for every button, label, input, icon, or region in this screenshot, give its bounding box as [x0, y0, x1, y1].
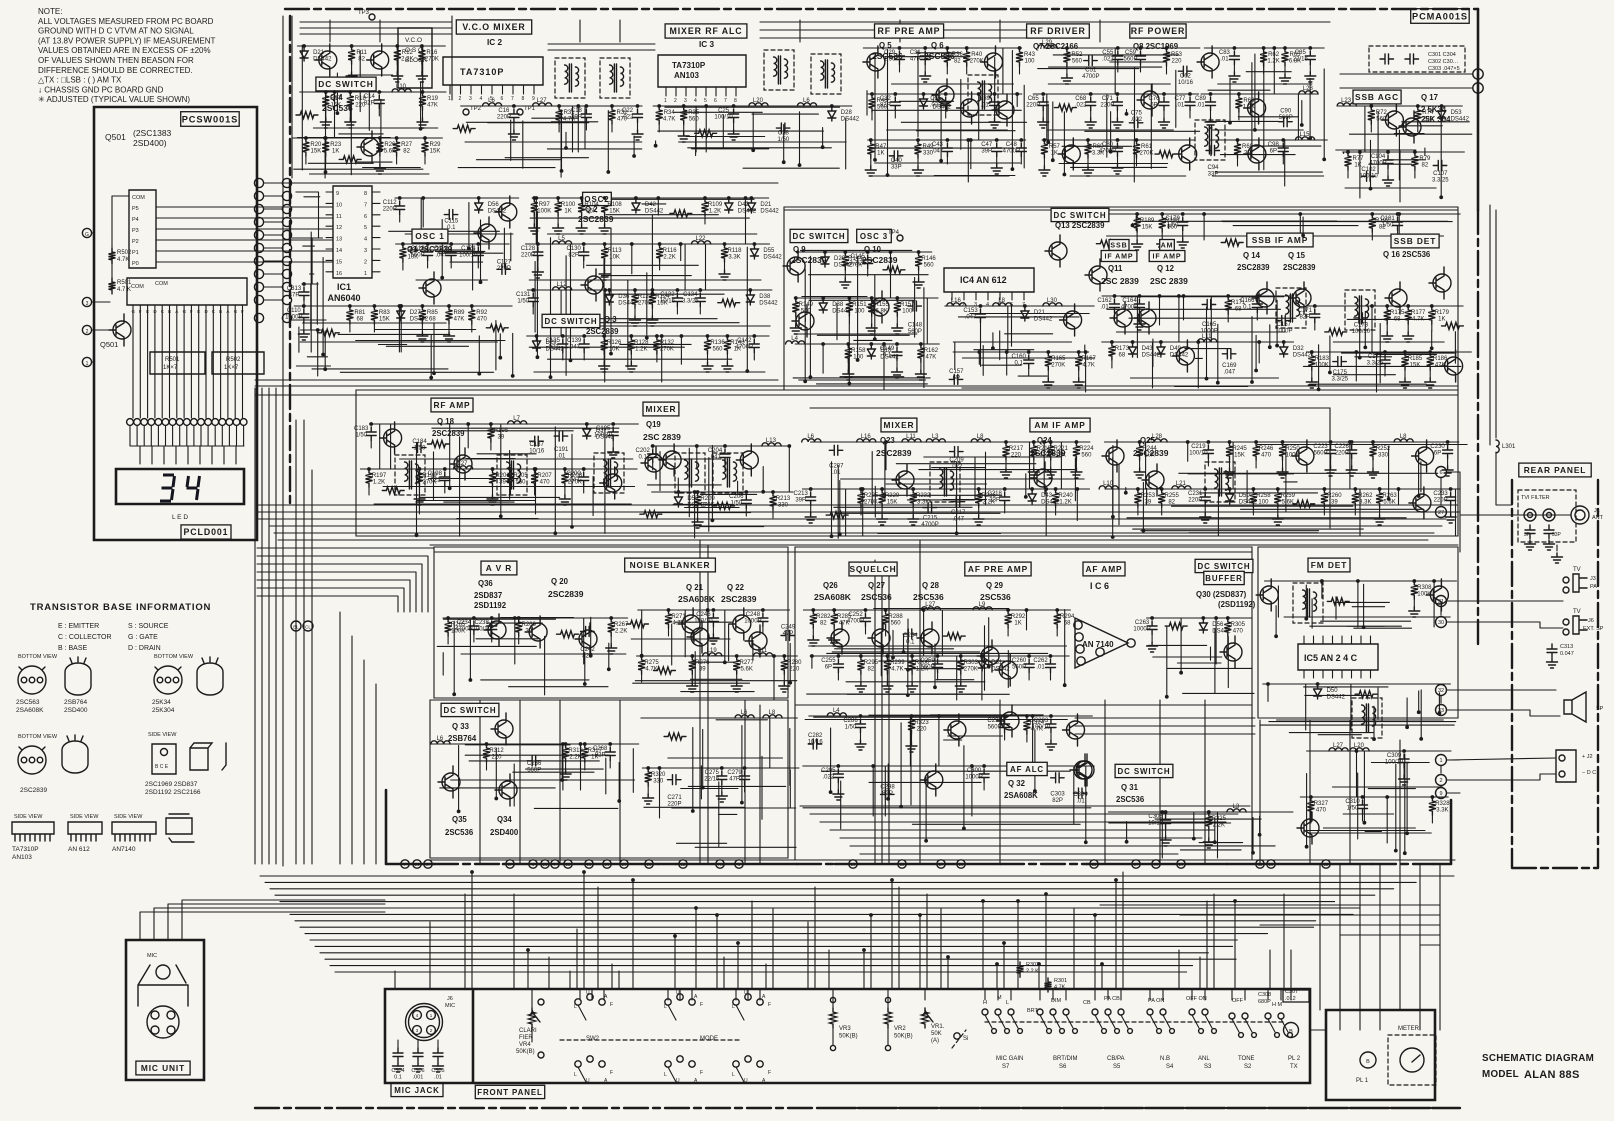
svg-text:D21: D21: [1034, 310, 1046, 316]
svg-text:47P: 47P: [289, 293, 300, 299]
svg-text:C71: C71: [1102, 96, 1114, 102]
svg-text:R113: R113: [608, 248, 623, 254]
svg-text:B: B: [1289, 1029, 1293, 1035]
svg-text:C308: C308: [1258, 992, 1271, 998]
svg-text:220P: 220P: [383, 207, 397, 213]
svg-text:R295: R295: [864, 660, 879, 666]
svg-text:C304: C304: [391, 1068, 404, 1074]
svg-text:D43: D43: [1041, 493, 1053, 499]
svg-text:C18: C18: [571, 108, 583, 114]
svg-text:Q24: Q24: [1037, 436, 1052, 445]
svg-text:Q 14: Q 14: [1243, 251, 1261, 260]
svg-text:SSB IF AMP: SSB IF AMP: [1252, 235, 1308, 245]
svg-text:D53: D53: [1451, 110, 1463, 116]
svg-text:6P: 6P: [1434, 451, 1441, 457]
svg-text:L13: L13: [766, 438, 777, 444]
svg-text:S6: S6: [1059, 1064, 1067, 1070]
svg-text:M: M: [1154, 862, 1158, 867]
svg-text:R207: R207: [537, 473, 552, 479]
svg-text:39: 39: [1145, 500, 1152, 506]
svg-text:33P: 33P: [891, 165, 902, 171]
svg-text:C77: C77: [1174, 96, 1186, 102]
svg-text:R262: R262: [1358, 493, 1373, 499]
svg-text:2SC536: 2SC536: [924, 51, 955, 61]
svg-text:C301 C304: C301 C304: [1428, 52, 1456, 58]
svg-text:ALL VOLTAGES MEASURED FROM PC: ALL VOLTAGES MEASURED FROM PC BOARD: [38, 17, 214, 26]
svg-text:L10: L10: [396, 84, 407, 90]
svg-text:VR1.: VR1.: [931, 1024, 945, 1030]
svg-text:U: U: [676, 1078, 680, 1084]
svg-text:R240: R240: [1058, 493, 1073, 499]
svg-text:2.2K: 2.2K: [401, 57, 413, 63]
svg-text:AF AMP: AF AMP: [1085, 564, 1122, 574]
svg-text:MIXER: MIXER: [646, 404, 677, 414]
svg-text:4.7K: 4.7K: [1412, 317, 1424, 323]
svg-text:C300: C300: [967, 768, 982, 774]
svg-text:220P: 220P: [1100, 103, 1114, 109]
svg-text:DS442: DS442: [763, 255, 782, 261]
svg-text:TP4: TP4: [888, 230, 900, 236]
svg-text:7: 7: [511, 96, 514, 102]
svg-text:D31: D31: [991, 660, 1003, 666]
svg-text:C162: C162: [1097, 298, 1112, 304]
svg-text:MODEL: MODEL: [1482, 1069, 1519, 1080]
svg-text:1.2K: 1.2K: [1059, 500, 1071, 506]
svg-text:4700P: 4700P: [1369, 161, 1386, 167]
svg-text:220P: 220P: [667, 802, 681, 808]
svg-text:270K: 270K: [701, 503, 715, 509]
svg-text:330: 330: [1378, 453, 1389, 459]
svg-text:R26: R26: [384, 142, 396, 148]
svg-text:C39: C39: [979, 96, 991, 102]
svg-text:Q501: Q501: [105, 132, 126, 142]
svg-text:R258: R258: [1256, 493, 1271, 499]
svg-text:R277: R277: [740, 660, 755, 666]
svg-text:AN103: AN103: [674, 71, 699, 80]
svg-text:R165: R165: [1051, 356, 1066, 362]
svg-text:2: 2: [364, 259, 367, 265]
svg-text:E: E: [146, 309, 149, 314]
svg-text:C304: C304: [1073, 792, 1088, 798]
svg-text:10K: 10K: [609, 347, 620, 353]
svg-text:R151: R151: [852, 302, 867, 308]
svg-text:R292: R292: [1011, 614, 1026, 620]
svg-text:Q 6: Q 6: [931, 41, 944, 50]
svg-text:C286: C286: [843, 718, 858, 724]
svg-text:C195: C195: [596, 426, 611, 432]
svg-text:L11: L11: [1202, 334, 1212, 340]
svg-text:(2SC1383: (2SC1383: [133, 128, 172, 138]
svg-text:6P: 6P: [953, 376, 960, 382]
svg-text:11: 11: [1258, 862, 1263, 867]
svg-text:C94: C94: [1207, 165, 1219, 171]
svg-text:C16: C16: [498, 108, 510, 114]
svg-text:BRT/DIM: BRT/DIM: [1053, 1056, 1078, 1062]
svg-text:DIFFERENCE SHOULD BE CORRECTED: DIFFERENCE SHOULD BE CORRECTED.: [38, 66, 193, 75]
svg-text:1: 1: [364, 271, 367, 277]
svg-text:68: 68: [1064, 621, 1071, 627]
svg-text:DS442: DS442: [1327, 695, 1346, 701]
svg-text:C165: C165: [1202, 322, 1217, 328]
svg-text:.01: .01: [1196, 103, 1205, 109]
svg-text:TX: TX: [717, 862, 723, 867]
svg-text:47P: 47P: [783, 631, 794, 637]
svg-text:220: 220: [916, 727, 927, 733]
svg-text:D21: D21: [760, 202, 772, 208]
svg-text:OFF: OFF: [1232, 998, 1244, 1004]
svg-text:4.7K: 4.7K: [891, 667, 903, 673]
svg-text:15K: 15K: [311, 149, 322, 155]
svg-text:R35: R35: [688, 110, 700, 116]
svg-text:H: H: [983, 1000, 987, 1006]
svg-text:R173: R173: [1115, 346, 1130, 352]
svg-text:L27: L27: [537, 98, 548, 104]
svg-text:100/10: 100/10: [1359, 173, 1378, 179]
svg-text:1/50: 1/50: [845, 725, 857, 731]
svg-text:NOTE:: NOTE:: [38, 7, 62, 16]
svg-text:1.2K: 1.2K: [1267, 59, 1279, 65]
svg-text:100/10: 100/10: [714, 115, 733, 121]
svg-text:6: 6: [1010, 302, 1013, 308]
svg-text:F: F: [610, 1002, 613, 1008]
svg-text:10/16: 10/16: [808, 740, 824, 746]
svg-text:5.6K: 5.6K: [384, 149, 396, 155]
svg-text:(A): (A): [931, 1038, 939, 1044]
svg-text:C145: C145: [851, 254, 866, 260]
svg-text:DS442: DS442: [832, 309, 851, 315]
svg-text:220P: 220P: [1188, 498, 1202, 504]
svg-text:1/50: 1/50: [730, 501, 742, 507]
svg-text:ALAN 88S: ALAN 88S: [1524, 1069, 1580, 1081]
svg-text:△TX : □LSB : ( ) AM TX: △TX : □LSB : ( ) AM TX: [38, 76, 122, 85]
svg-text:1000P: 1000P: [1275, 329, 1292, 335]
svg-text:68: 68: [429, 317, 436, 323]
svg-text:1K×7: 1K×7: [224, 365, 239, 371]
svg-text:IC 2: IC 2: [487, 38, 502, 47]
svg-text:R72: R72: [1376, 110, 1388, 116]
svg-text:R299: R299: [890, 660, 905, 666]
svg-text:4: 4: [480, 96, 483, 102]
svg-text:2: 2: [1439, 778, 1442, 784]
svg-text:100/10: 100/10: [1352, 329, 1371, 335]
svg-text:82: 82: [954, 59, 961, 65]
svg-text:2SC536: 2SC536: [861, 592, 892, 602]
svg-text:VR3: VR3: [839, 1026, 851, 1032]
svg-text:AN103: AN103: [12, 854, 32, 861]
svg-text:L15: L15: [1299, 132, 1310, 138]
svg-text:IF AMP: IF AMP: [1105, 254, 1134, 261]
svg-text:Q11: Q11: [1108, 264, 1123, 273]
svg-text:100/10: 100/10: [1189, 451, 1208, 457]
svg-text:B: B: [168, 309, 171, 314]
svg-text:L10: L10: [1103, 481, 1114, 487]
svg-text:C110: C110: [287, 308, 302, 314]
svg-text:Q8 2SC1969: Q8 2SC1969: [1133, 42, 1179, 51]
svg-text:33P: 33P: [989, 498, 1000, 504]
svg-text:G: G: [132, 309, 136, 314]
svg-text:2SC 2839: 2SC 2839: [643, 432, 681, 442]
svg-text:1/50: 1/50: [1167, 223, 1179, 229]
svg-text:100: 100: [1258, 500, 1269, 506]
svg-text:15K: 15K: [430, 149, 441, 155]
svg-text:R109: R109: [708, 202, 723, 208]
svg-text:C51: C51: [1085, 68, 1097, 74]
svg-text:R280: R280: [787, 660, 802, 666]
svg-text:.047: .047: [952, 517, 964, 523]
svg-text:BUFFER: BUFFER: [1205, 574, 1242, 583]
svg-text:68: 68: [1394, 317, 1401, 323]
svg-text:Q 16 2SC536: Q 16 2SC536: [1383, 250, 1431, 259]
svg-text:CB: CB: [1083, 1000, 1091, 1006]
svg-text:R92: R92: [476, 310, 488, 316]
svg-text:R189: R189: [1140, 218, 1155, 224]
svg-text:220P: 220P: [1335, 451, 1349, 457]
svg-text:EXT. SP: EXT. SP: [1583, 626, 1604, 632]
svg-text:L: L: [574, 1072, 577, 1078]
svg-text:R186: R186: [1433, 356, 1448, 362]
svg-text:15K: 15K: [586, 209, 597, 215]
svg-text:C65: C65: [1028, 96, 1040, 102]
svg-text:470: 470: [1316, 808, 1327, 814]
svg-text:C83: C83: [1219, 50, 1231, 56]
svg-text:R62: R62: [1268, 52, 1280, 58]
svg-text:560P: 560P: [1123, 57, 1137, 63]
svg-text:560P: 560P: [527, 768, 541, 774]
svg-text:82: 82: [1168, 500, 1175, 506]
svg-text:23: 23: [647, 862, 652, 867]
svg-text:R325: R325: [1212, 816, 1227, 822]
svg-text:15K: 15K: [609, 209, 620, 215]
svg-text:.01: .01: [832, 470, 841, 476]
svg-text:2SC2839: 2SC2839: [578, 214, 614, 224]
svg-text:D42: D42: [738, 202, 750, 208]
svg-text:C134: C134: [683, 292, 698, 298]
svg-text:L16: L16: [861, 434, 872, 440]
svg-text:D : DRAIN: D : DRAIN: [128, 645, 161, 652]
svg-text:0.1: 0.1: [447, 225, 456, 231]
svg-text:220: 220: [1011, 453, 1022, 459]
svg-text:IC5 AN 2 4 C: IC5 AN 2 4 C: [1304, 653, 1358, 663]
svg-text:2SA608K: 2SA608K: [814, 592, 852, 602]
svg-text:.01: .01: [1036, 665, 1045, 671]
svg-text:100/10: 100/10: [459, 253, 478, 259]
svg-text:C75: C75: [1131, 111, 1143, 117]
svg-text:R501: R501: [165, 357, 180, 363]
svg-text:R313: R313: [568, 748, 583, 754]
svg-text:47K: 47K: [427, 103, 438, 109]
svg-text:C184: C184: [412, 439, 427, 445]
svg-text:C293: C293: [1034, 718, 1049, 724]
svg-text:DC SWITCH: DC SWITCH: [545, 317, 598, 326]
svg-text:COM: COM: [131, 284, 144, 290]
svg-text:R100: R100: [561, 202, 576, 208]
svg-text:AN7140: AN7140: [112, 846, 136, 853]
svg-text:.047: .047: [568, 478, 580, 484]
svg-text:C262: C262: [1033, 658, 1048, 664]
svg-text:R158: R158: [851, 348, 866, 354]
svg-text:R294: R294: [1060, 614, 1075, 620]
svg-text:C148: C148: [908, 322, 923, 328]
svg-text:P4: P4: [132, 217, 139, 223]
svg-text:AM: AM: [1161, 243, 1174, 250]
svg-text:R312: R312: [489, 748, 504, 754]
svg-text:DC SWITCH: DC SWITCH: [1198, 562, 1251, 571]
svg-text:Q 12: Q 12: [1157, 264, 1175, 273]
svg-text:TV: TV: [1573, 609, 1581, 615]
svg-text:2SB764: 2SB764: [448, 734, 477, 743]
svg-text:R323: R323: [914, 720, 929, 726]
svg-text:C124: C124: [461, 246, 476, 252]
svg-text:C279: C279: [727, 770, 742, 776]
svg-text:15K: 15K: [1142, 225, 1153, 231]
svg-text:1/50: 1/50: [1347, 806, 1359, 812]
svg-text:15K: 15K: [887, 500, 898, 506]
svg-text:C32: C32: [880, 96, 892, 102]
svg-text:560: 560: [924, 263, 935, 269]
svg-text:L7: L7: [513, 416, 520, 422]
svg-text:R155: R155: [875, 302, 890, 308]
svg-text:C255: C255: [821, 658, 836, 664]
svg-text:100/10: 100/10: [594, 433, 613, 439]
svg-text:2.2K: 2.2K: [1213, 823, 1225, 829]
svg-text:P3: P3: [132, 228, 139, 234]
svg-text:82P: 82P: [882, 791, 893, 797]
svg-text:39P: 39P: [981, 149, 992, 155]
svg-text:U: U: [744, 990, 748, 996]
svg-text:D53: D53: [687, 496, 699, 502]
svg-text:DS442: DS442: [1170, 353, 1189, 359]
svg-text:C171: C171: [1298, 308, 1313, 314]
svg-text:1.2K: 1.2K: [373, 480, 385, 486]
svg-text:B: B: [219, 309, 222, 314]
svg-text:8: 8: [364, 191, 367, 197]
svg-text:C131: C131: [516, 292, 531, 298]
svg-text:2SC536: 2SC536: [980, 592, 1011, 602]
svg-text:C107: C107: [1433, 171, 1448, 177]
svg-text:25K34: 25K34: [152, 699, 171, 706]
svg-text:C234: C234: [457, 620, 472, 626]
svg-text:4: 4: [694, 98, 697, 104]
svg-text:AF PRE AMP: AF PRE AMP: [968, 564, 1028, 574]
svg-text:C90: C90: [1280, 109, 1292, 115]
svg-text:10/16: 10/16: [1148, 821, 1164, 827]
svg-text:.047: .047: [435, 253, 447, 259]
svg-text:R288: R288: [888, 614, 903, 620]
svg-text:4700P: 4700P: [1099, 149, 1116, 155]
svg-text:VR2: VR2: [894, 1026, 906, 1032]
svg-text:D50: D50: [1239, 493, 1251, 499]
svg-text:R167: R167: [1082, 356, 1097, 362]
svg-text:C89: C89: [1195, 96, 1207, 102]
svg-text:82: 82: [358, 57, 365, 63]
svg-text:L6: L6: [437, 736, 444, 742]
svg-text:L23: L23: [1341, 98, 1352, 104]
svg-text:FM DET: FM DET: [1311, 560, 1347, 570]
svg-text:VALUES OBTAINED ARE IN EXCESS: VALUES OBTAINED ARE IN EXCESS OF ±20%: [38, 46, 211, 55]
svg-text:R77: R77: [1352, 156, 1364, 162]
svg-text:L22: L22: [695, 236, 706, 242]
svg-text:1: 1: [448, 96, 451, 102]
svg-text:R74: R74: [1422, 110, 1434, 116]
svg-text:R260: R260: [1327, 493, 1342, 499]
svg-text:Q 31: Q 31: [1121, 783, 1139, 792]
svg-text:47P: 47P: [729, 777, 740, 783]
svg-text:3.3/25: 3.3/25: [1432, 177, 1449, 183]
svg-text:6P: 6P: [825, 665, 832, 671]
svg-text:PA: PA: [1590, 584, 1597, 590]
svg-text:.047: .047: [965, 315, 977, 321]
svg-text:2SA608K: 2SA608K: [1004, 791, 1038, 800]
svg-text:C309: C309: [1387, 753, 1402, 759]
svg-text:270K: 270K: [1139, 151, 1153, 157]
svg-text:100K: 100K: [1315, 363, 1329, 369]
svg-text:Q 15: Q 15: [1288, 251, 1306, 260]
svg-text:.001: .001: [413, 1075, 424, 1081]
svg-text:R308: R308: [1417, 585, 1432, 591]
svg-text:C215: C215: [923, 516, 938, 522]
svg-text:39: 39: [699, 667, 706, 673]
svg-text:C219: C219: [1191, 444, 1206, 450]
svg-text:DC SWITCH: DC SWITCH: [793, 232, 846, 241]
svg-text:1.2K: 1.2K: [709, 209, 721, 215]
svg-text:R16: R16: [426, 50, 438, 56]
svg-text:18: 18: [900, 862, 905, 867]
svg-text:C98: C98: [1268, 142, 1280, 148]
svg-text:S4: S4: [1166, 1064, 1174, 1070]
svg-text:DS442: DS442: [645, 209, 664, 215]
svg-text:C306: C306: [411, 1068, 424, 1074]
svg-text:SIDE VIEW: SIDE VIEW: [70, 814, 99, 820]
svg-text:1K: 1K: [332, 149, 339, 155]
svg-text:R27: R27: [401, 142, 413, 148]
svg-text:U: U: [744, 1078, 748, 1084]
svg-text:4700P: 4700P: [455, 627, 472, 633]
svg-text:BOTTOM VIEW: BOTTOM VIEW: [18, 654, 58, 660]
svg-text:L6: L6: [803, 98, 810, 104]
svg-text:3: 3: [469, 96, 472, 102]
svg-text:R282: R282: [816, 614, 831, 620]
svg-text:R104: R104: [584, 202, 599, 208]
svg-text:C310: C310: [1345, 799, 1360, 805]
svg-text:C177: C177: [1368, 354, 1383, 360]
svg-text:C62: C62: [1180, 74, 1192, 80]
svg-text:TRANSISTOR BASE INFORMATION: TRANSISTOR BASE INFORMATION: [30, 602, 211, 613]
svg-text:IF AMP: IF AMP: [1153, 254, 1182, 261]
svg-text:CB/PA: CB/PA: [1107, 1056, 1125, 1062]
svg-text:R267: R267: [614, 622, 629, 628]
svg-text:100: 100: [854, 309, 865, 315]
svg-text:39P: 39P: [571, 115, 582, 121]
svg-text:L: L: [574, 1004, 577, 1010]
svg-text:47K: 47K: [926, 355, 937, 361]
svg-text:82P: 82P: [582, 654, 593, 660]
svg-text:.01: .01: [1100, 305, 1109, 311]
svg-text:R213: R213: [776, 496, 791, 502]
svg-text:270K: 270K: [425, 57, 439, 63]
svg-text:47P: 47P: [910, 57, 921, 63]
svg-text:1K: 1K: [564, 209, 571, 215]
svg-text:1: 1: [86, 361, 89, 367]
svg-text:270K: 270K: [1051, 363, 1065, 369]
svg-text:J3: J3: [1590, 576, 1596, 582]
svg-text:1: 1: [664, 98, 667, 104]
svg-text:R266: R266: [522, 622, 537, 628]
svg-text:82P: 82P: [364, 101, 375, 107]
svg-text:2SD400: 2SD400: [490, 828, 519, 837]
svg-text:B: B: [1366, 1059, 1370, 1065]
svg-text:COM: COM: [155, 281, 168, 287]
svg-text:C307: C307: [1285, 989, 1298, 995]
